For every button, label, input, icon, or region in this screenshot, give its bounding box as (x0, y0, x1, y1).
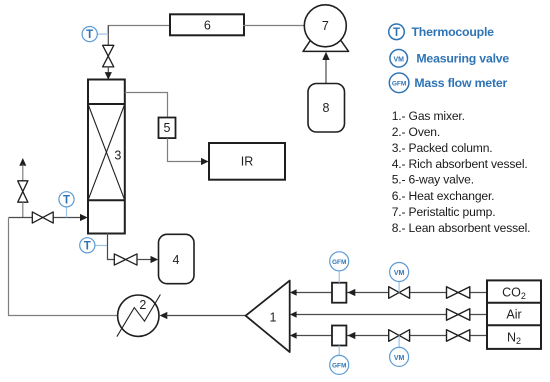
svg-text:T: T (393, 27, 400, 39)
wire valve V1 to column inlet arrow (107, 67, 109, 73)
wire top from valve riser to heat exchanger 6 (108, 26, 170, 35)
GFM circle stem (N2) (338, 346, 340, 356)
wire valve V4 to vessel 4 (137, 259, 153, 261)
arrow into column top (105, 72, 112, 80)
CO2 line: wire from gas cylinder box (295, 292, 487, 294)
wire left downcomer to heat exchanger 2 (9, 218, 118, 316)
svg-text:GFM: GFM (332, 259, 346, 266)
GFM circle stem (CO2) (338, 271, 340, 283)
rich absorbent vessel 4 (159, 234, 195, 283)
measuring valve VM circle (CO2) (390, 263, 409, 282)
thermocouple T2 (59, 192, 74, 207)
valve V1 (vertical) (103, 45, 114, 67)
thermocouple T1 stem wire (97, 33, 109, 35)
wire riser into valve V1 (107, 26, 109, 46)
svg-text:T: T (63, 194, 70, 206)
numbered equipment list (392, 109, 531, 235)
peristaltic pump 7 base (303, 35, 349, 51)
svg-text:3: 3 (114, 149, 121, 163)
wire vent arrow to valve V2 (22, 165, 24, 182)
legend label Thermocouple (412, 25, 495, 39)
svg-text:GFM: GFM (392, 81, 406, 88)
packed column 3 body (88, 80, 125, 234)
mass flow meter box G1 (332, 283, 346, 303)
6-way valve 5 (159, 118, 176, 139)
thermocouple T3 stem wire (95, 245, 108, 247)
wire column bottom to valve V4 (108, 233, 115, 260)
svg-text:IR: IR (241, 155, 254, 169)
arrow into mixer (Air line) (290, 311, 297, 318)
svg-text:VM: VM (394, 355, 405, 362)
svg-text:8.- Lean absorbent vessel.: 8.- Lean absorbent vessel. (392, 221, 531, 235)
wire valve 5 to IR (168, 138, 203, 161)
thermocouple T3 (80, 238, 95, 253)
valve V7 (Air cylinder valve) (447, 309, 470, 321)
svg-text:2.- Oven.: 2.- Oven. (392, 125, 440, 139)
arrow into column left (80, 214, 88, 221)
gas cylinders block CO2 / Air / N2 (487, 280, 541, 349)
Air line: wire (295, 314, 487, 316)
svg-text:VM: VM (393, 56, 404, 63)
svg-text:2: 2 (139, 298, 146, 312)
svg-text:1: 1 (270, 311, 277, 325)
packed column 3 packing cross (88, 104, 125, 200)
svg-text:Air: Air (506, 307, 521, 321)
measuring valve V6 (CO2) (389, 287, 410, 299)
heat exchanger 2 (117, 295, 160, 337)
wire box 6 to pump 7 (243, 25, 304, 27)
VM circle stem (N2) (398, 336, 400, 348)
valve V2 (vertical vent valve) (18, 181, 28, 202)
wire vessel 8 to pump 7 (325, 58, 327, 84)
arrow into mixer (CO2 line) (290, 289, 297, 296)
measuring valve V9 (N2) (389, 330, 410, 342)
legend label Mass flow meter (414, 76, 507, 90)
thermocouple T2 stem wire (66, 207, 68, 218)
arrow into pump 7 (322, 52, 329, 60)
lean absorbent vessel 8 (308, 84, 345, 133)
mass flow meter GFM circle (N2) (330, 355, 349, 374)
svg-text:7.- Peristaltic pump.: 7.- Peristaltic pump. (392, 205, 496, 219)
svg-text:4.- Rich absorbent vessel.: 4.- Rich absorbent vessel. (392, 157, 528, 171)
svg-text:VM: VM (394, 270, 405, 277)
vent arrow up (left) (19, 158, 26, 166)
arrow into IR (201, 158, 209, 165)
svg-text:6: 6 (204, 18, 211, 32)
mass flow meter box G2 (332, 326, 346, 346)
arrow into mixer (N2 line) (290, 332, 297, 339)
wire feed line into column (horizontal) (9, 217, 83, 219)
VM circle stem (CO2) (398, 282, 400, 293)
svg-text:4: 4 (173, 253, 180, 267)
wire gas mixer 1 to heat exchanger 2 (166, 315, 246, 317)
svg-text:7: 7 (322, 19, 329, 33)
svg-text:5.- 6-way valve.: 5.- 6-way valve. (392, 173, 474, 187)
svg-text:5: 5 (164, 121, 171, 135)
valve V3 (horizontal on feed line) (32, 212, 53, 223)
arrow into GFM meter G2 (348, 332, 356, 339)
wire column top to 6-way valve 5 (125, 93, 168, 118)
wire valve V2 down to feed line (22, 202, 24, 217)
arrow into vessel 4 (151, 256, 159, 263)
svg-text:GFM: GFM (332, 363, 346, 370)
mass flow meter GFM circle (CO2) (330, 252, 349, 271)
valve V5 (CO2 cylinder valve) (447, 287, 470, 299)
legend measuring valve symbol (390, 50, 408, 68)
arrow into GFM meter G1 (348, 289, 356, 296)
legend mass flow meter symbol (389, 73, 409, 93)
svg-text:Thermocouple: Thermocouple (412, 25, 495, 39)
measuring valve VM circle (N2) (390, 347, 409, 366)
N2 line: wire (295, 335, 487, 337)
valve V8 (N2 cylinder valve) (447, 330, 470, 342)
svg-text:8: 8 (323, 101, 330, 115)
gas mixer 1 (triangle) (246, 281, 290, 353)
valve V4 (to vessel 4) (114, 254, 137, 265)
svg-text:T: T (84, 240, 91, 252)
svg-text:3.- Packed column.: 3.- Packed column. (392, 141, 493, 155)
IR analyser box (209, 143, 285, 180)
thermocouple T1 (82, 26, 97, 41)
legend thermocouple symbol (389, 24, 405, 40)
svg-text:6.- Heat exchanger.: 6.- Heat exchanger. (392, 189, 495, 203)
legend label Measuring valve (416, 52, 509, 66)
peristaltic pump 7 (304, 5, 346, 47)
svg-text:1.- Gas mixer.: 1.- Gas mixer. (392, 109, 465, 123)
svg-text:Mass flow meter: Mass flow meter (414, 76, 507, 90)
svg-text:T: T (86, 29, 93, 41)
heat exchanger 6 (oven coil box) (170, 14, 244, 35)
svg-text:Measuring valve: Measuring valve (416, 52, 509, 66)
arrow into heat exchanger 2 (160, 312, 168, 319)
